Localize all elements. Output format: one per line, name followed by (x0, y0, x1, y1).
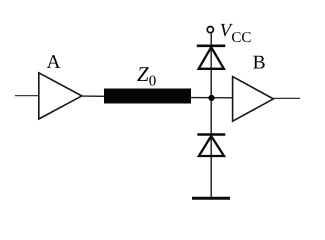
wire Z0 to node and buffer B (191, 97, 233, 99)
wire buffer A to Z0 line (82, 95, 106, 97)
wire output of buffer B (273, 97, 300, 99)
svg-text:A: A (47, 52, 61, 73)
svg-text:Z: Z (137, 62, 149, 86)
ground (192, 197, 230, 200)
svg-text:B: B (253, 52, 266, 73)
wire input to buffer A (15, 95, 39, 97)
diode D1 triangle (199, 47, 224, 69)
diode D1 cathode bar (197, 44, 226, 47)
buffer A (39, 73, 82, 119)
label B (253, 52, 266, 73)
vertical rail wire Vcc to ground (210, 33, 212, 198)
svg-text:0: 0 (149, 73, 157, 89)
svg-text:CC: CC (231, 30, 251, 46)
diode D2 cathode bar (197, 133, 225, 136)
node junction dot (208, 95, 214, 101)
buffer B (233, 77, 274, 122)
diode D2 triangle (199, 136, 224, 156)
label Vcc (220, 21, 252, 46)
Vcc terminal circle (207, 27, 213, 33)
label Z0 (137, 62, 156, 90)
label A (47, 52, 61, 73)
transmission line Z0 (104, 89, 191, 104)
